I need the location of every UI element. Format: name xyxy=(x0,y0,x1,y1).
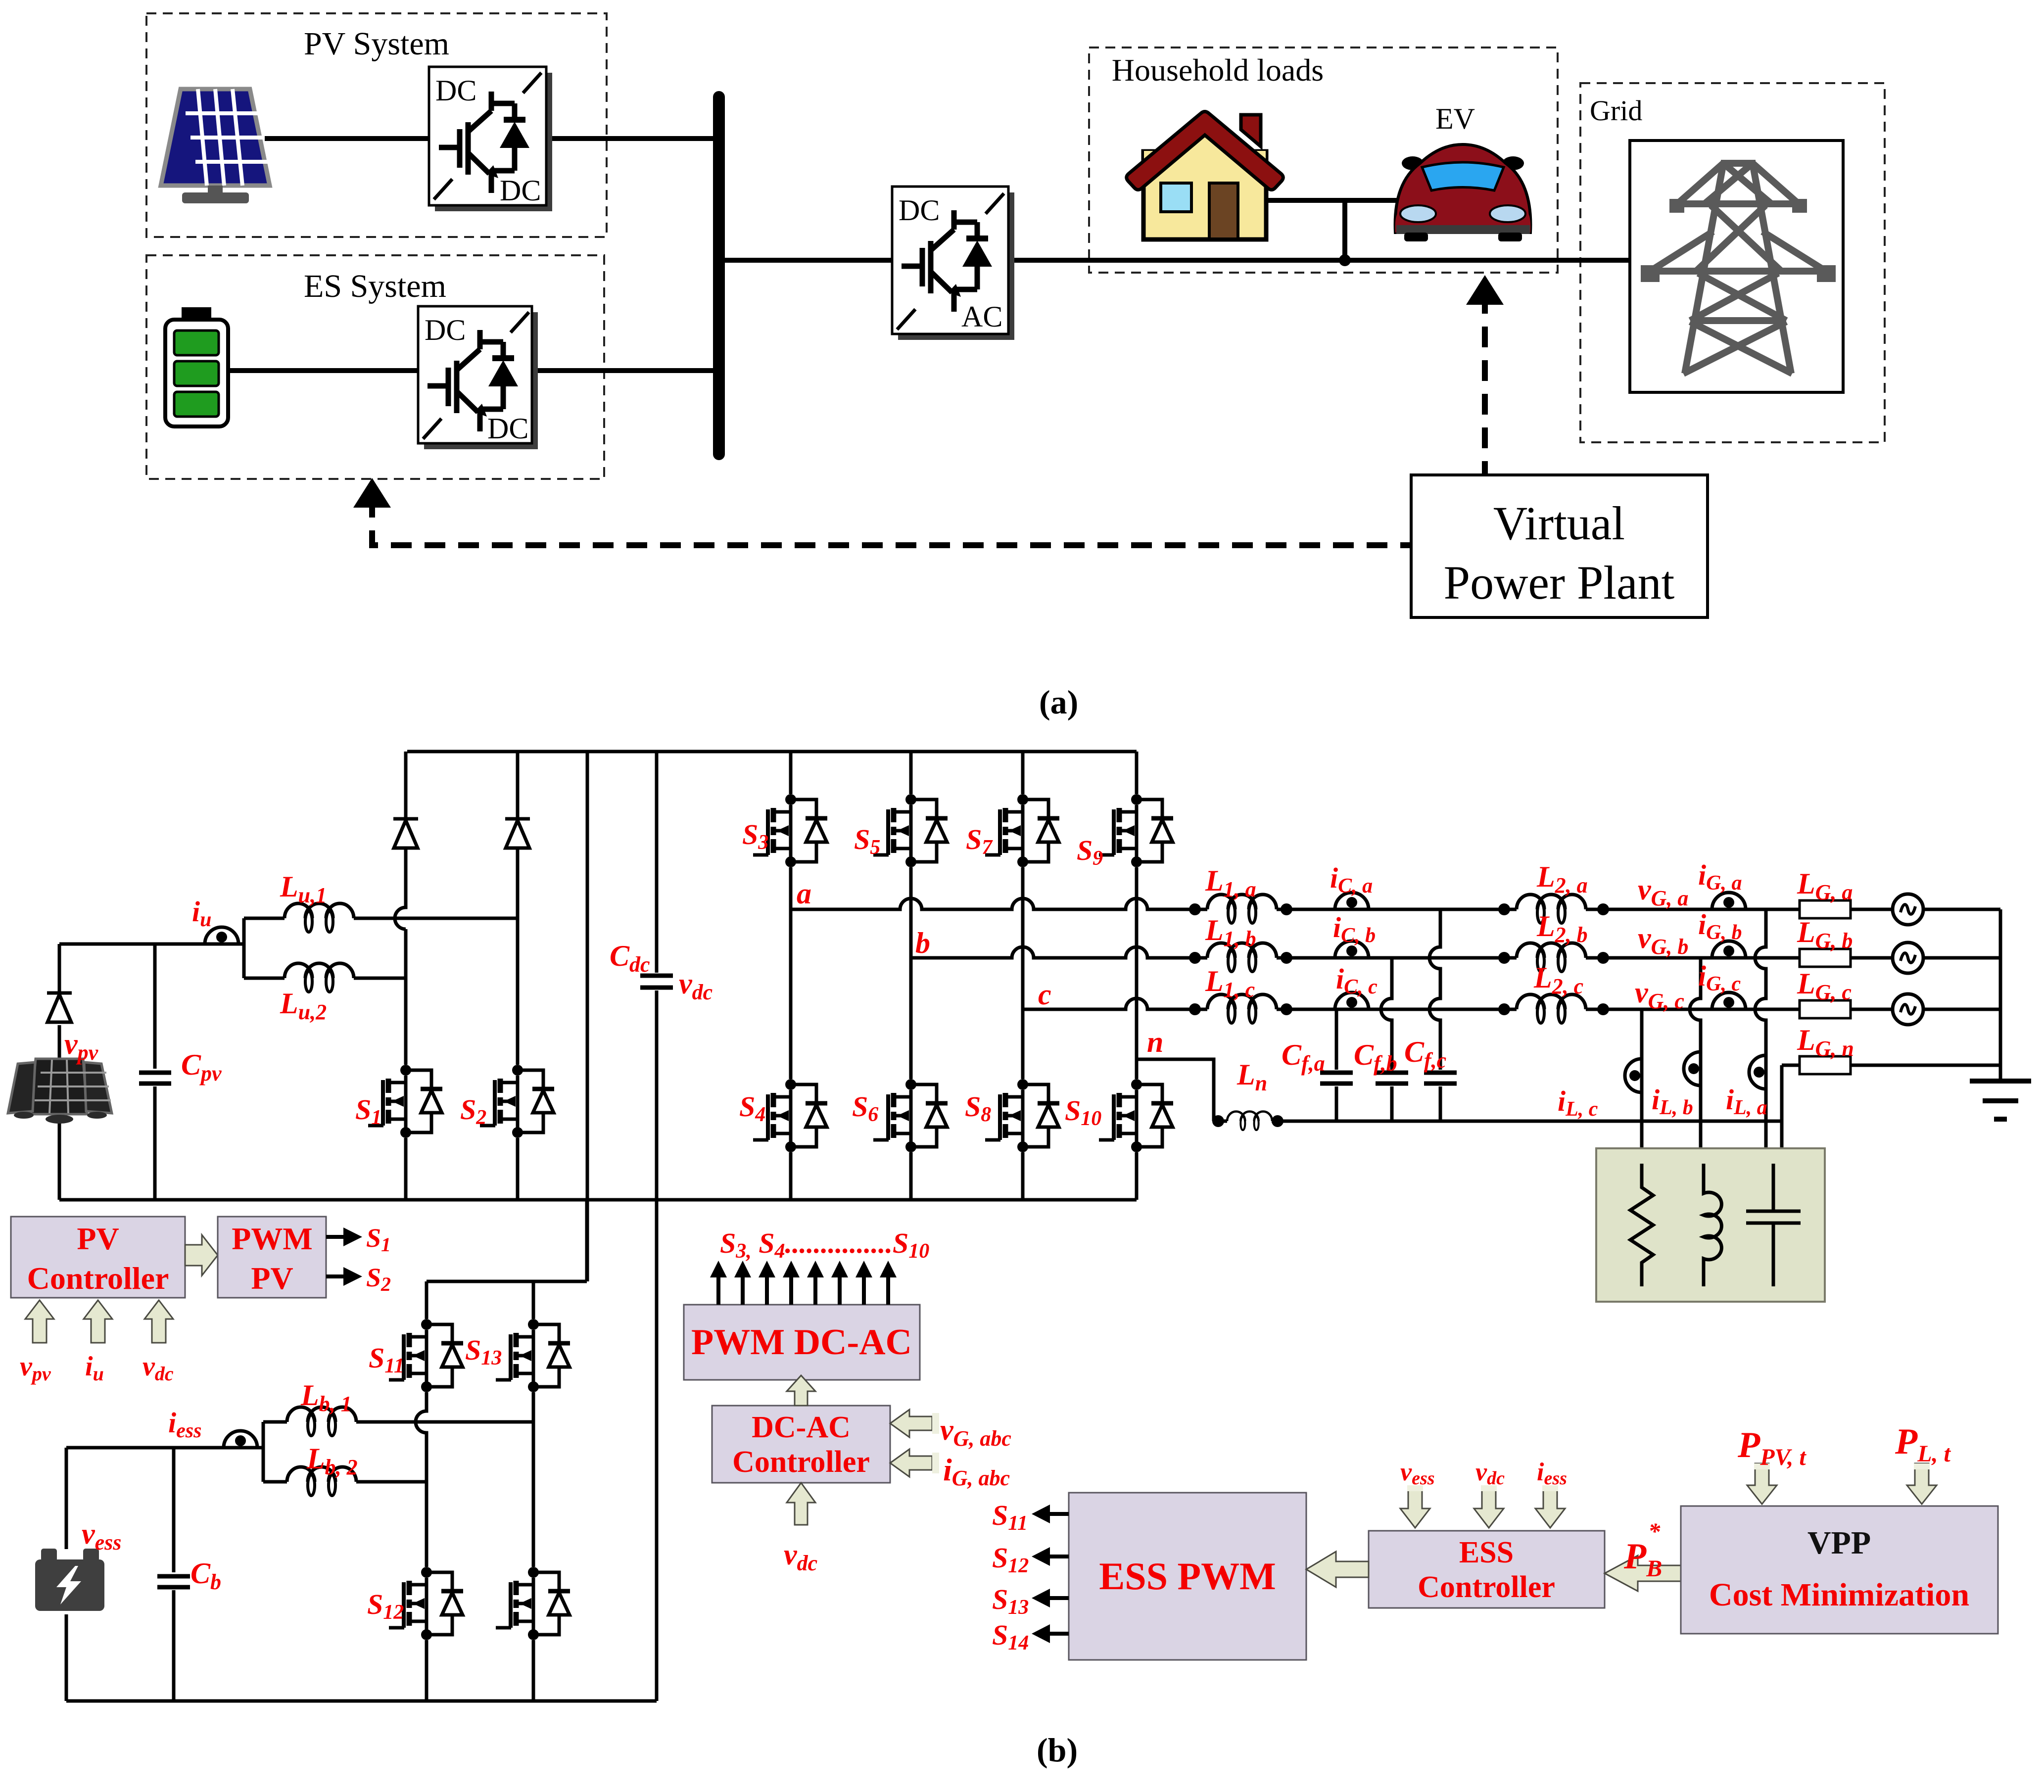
svg-text:Cost Minimization: Cost Minimization xyxy=(1709,1577,1969,1613)
svg-text:Controller: Controller xyxy=(27,1261,169,1296)
svg-text:DC: DC xyxy=(425,314,466,346)
svg-text:n: n xyxy=(1147,1026,1163,1058)
svg-text:(b): (b) xyxy=(1037,1731,1078,1769)
svg-text:PWM: PWM xyxy=(232,1221,313,1256)
svg-text:Controller: Controller xyxy=(1418,1570,1555,1604)
svg-text:DC: DC xyxy=(435,74,476,107)
svg-text:S3, S4...............S10: S3, S4...............S10 xyxy=(720,1227,929,1263)
svg-text:b: b xyxy=(915,927,930,959)
svg-text:Controller: Controller xyxy=(732,1445,870,1479)
svg-text:(a): (a) xyxy=(1039,683,1078,721)
svg-text:DC: DC xyxy=(487,412,528,445)
svg-text:AC: AC xyxy=(961,300,1002,333)
svg-text:EV: EV xyxy=(1435,102,1475,135)
svg-text:ESS PWM: ESS PWM xyxy=(1099,1555,1276,1598)
svg-text:DC: DC xyxy=(500,174,541,207)
svg-text:VPP: VPP xyxy=(1807,1525,1871,1561)
svg-text:PV: PV xyxy=(77,1221,119,1256)
svg-text:c: c xyxy=(1038,978,1051,1011)
svg-text:Grid: Grid xyxy=(1590,94,1642,127)
svg-text:ES System: ES System xyxy=(304,268,446,304)
svg-text:Virtual: Virtual xyxy=(1493,497,1625,550)
svg-text:Power Plant: Power Plant xyxy=(1444,556,1675,609)
svg-text:PWM DC-AC: PWM DC-AC xyxy=(691,1322,912,1363)
svg-text:PV: PV xyxy=(251,1261,293,1296)
svg-text:PV System: PV System xyxy=(304,26,449,62)
svg-text:DC: DC xyxy=(899,194,940,227)
svg-text:DC-AC: DC-AC xyxy=(752,1411,851,1444)
svg-text:ESS: ESS xyxy=(1459,1536,1514,1569)
svg-text:Household loads: Household loads xyxy=(1112,52,1324,88)
svg-text:a: a xyxy=(797,877,811,910)
